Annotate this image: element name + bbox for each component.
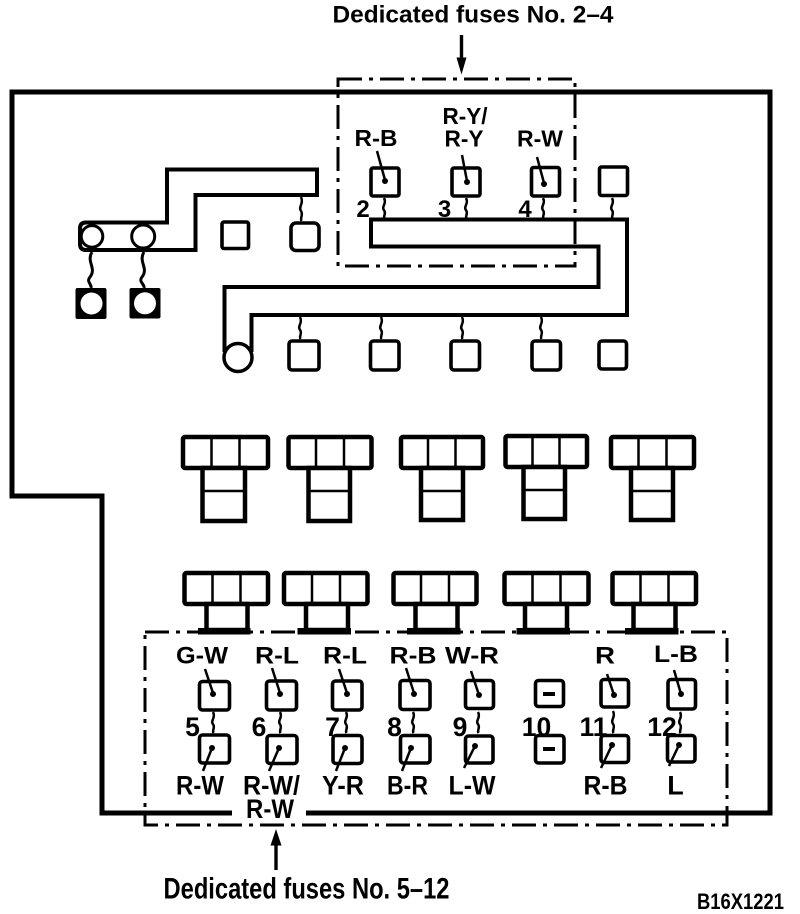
svg-text:R-W: R-W (246, 794, 294, 824)
wire squiggle trace 2 to square S4 (540, 317, 542, 339)
wire squiggle trace 2 to square S1 (299, 317, 301, 339)
wire squiggle top-right square to trace 2 (611, 198, 613, 219)
connector square S3 below trace 2 (451, 341, 480, 370)
fuse F2 square (371, 151, 399, 196)
svg-text:R-L: R-L (255, 643, 299, 670)
terminal circle 1 in trace 1 rail (81, 226, 103, 248)
wire squiggle trace 2 to square S2 (380, 317, 382, 339)
fuse F11 pair (601, 674, 629, 768)
relay connector T3 row 1 (401, 437, 483, 520)
svg-text:R-B: R-B (584, 771, 628, 801)
arrow up to dash-dot box from bottom title (271, 829, 282, 870)
svg-text:R-W: R-W (517, 126, 563, 152)
fuse F5 pair (200, 669, 230, 771)
fuse F4 square (532, 157, 560, 196)
relay connector T5 row 1 (611, 437, 694, 520)
relay connector T2 row 1 (289, 437, 372, 521)
svg-text:B16X1221: B16X1221 (697, 889, 784, 914)
svg-text:8: 8 (387, 712, 402, 742)
connector square top right of trace 2 (600, 167, 628, 196)
relay connector T5 row 2 (613, 573, 697, 635)
wire squiggle fuse 3 to trace 2 (465, 198, 467, 219)
connector square S5 below trace 2 right corner (599, 341, 627, 369)
wire label R-W second line (fuse 6 bottom) (232, 797, 306, 820)
wire squiggle fuse 2 to trace 2 (383, 198, 385, 219)
rounded connector square under trace 1 (291, 223, 319, 251)
fuse F6 pair (267, 668, 298, 771)
dash-dot boundary box: dedicated fuses No. 5-12 (145, 632, 727, 825)
svg-text:7: 7 (325, 712, 340, 742)
dash-dot boundary box: dedicated fuses No. 2-4 (338, 79, 575, 266)
wire squiggle from circle 2 to connector square (141, 252, 145, 288)
small plain square mid-left (222, 222, 249, 249)
svg-text:B-R: B-R (387, 771, 428, 801)
svg-text:L-W: L-W (449, 771, 496, 801)
relay connector T1 row 2 (185, 573, 269, 635)
fuse F9 pair (464, 671, 494, 768)
svg-text:Dedicated fuses No. 2–4: Dedicated fuses No. 2–4 (333, 2, 615, 29)
fuse F3 square (452, 155, 480, 196)
svg-text:R-B: R-B (355, 125, 398, 151)
svg-text:R: R (595, 643, 615, 670)
bus bar trace 2 (large Z shape) (225, 220, 628, 351)
terminal circle at end of trace 2 stub (224, 344, 252, 372)
arrow down from title to fuse group (457, 35, 467, 75)
bus bar trace 1 (top left) (80, 170, 317, 251)
svg-text:R-B: R-B (390, 643, 437, 670)
svg-text:R-W: R-W (176, 771, 224, 801)
wire squiggle trace 2 to square S3 (461, 317, 463, 339)
svg-text:R-L: R-L (323, 643, 367, 670)
relay connector T4 row 2 (505, 573, 589, 635)
svg-text:4: 4 (518, 196, 532, 223)
svg-text:2: 2 (356, 196, 369, 223)
connector square S1 below trace 2 (289, 341, 319, 370)
svg-text:L-B: L-B (654, 641, 698, 668)
svg-text:3: 3 (438, 196, 451, 223)
svg-text:L: L (667, 771, 684, 801)
svg-text:Dedicated fuses No. 5–12: Dedicated fuses No. 5–12 (164, 873, 450, 906)
svg-text:6: 6 (252, 712, 267, 742)
connector square with circle (right) (130, 288, 161, 319)
relay connector T2 row 2 (284, 573, 368, 635)
svg-text:11: 11 (579, 712, 607, 742)
fuse F12 pair (668, 670, 696, 766)
svg-text:R-Y: R-Y (445, 126, 484, 152)
fuse F10 pair (spare, with dash) (536, 681, 565, 764)
main fuse box outline (12, 92, 770, 813)
relay connector T4 row 1 (506, 436, 588, 519)
svg-text:W-R: W-R (445, 643, 499, 670)
fuse F7 pair (333, 669, 363, 771)
relay connector T1 row 1 (183, 437, 268, 521)
connector square with circle (left) (76, 288, 107, 319)
wire squiggle fuse 4 to trace 2 (542, 198, 544, 219)
wire squiggle from trace 1 to rounded square (300, 197, 302, 221)
svg-text:G-W: G-W (176, 643, 228, 670)
svg-text:9: 9 (453, 712, 468, 742)
terminal circle 2 in trace 1 rail (132, 225, 155, 248)
connector square S4 below trace 2 (532, 341, 561, 370)
svg-text:10: 10 (522, 712, 551, 742)
svg-text:12: 12 (647, 712, 676, 742)
svg-text:Y-R: Y-R (322, 771, 364, 801)
svg-text:5: 5 (185, 712, 200, 742)
relay connector T3 row 2 (394, 573, 477, 635)
connector square S2 below trace 2 (371, 341, 400, 370)
wire squiggle from circle 1 to connector square (89, 252, 93, 288)
fuse F8 pair (400, 668, 430, 771)
